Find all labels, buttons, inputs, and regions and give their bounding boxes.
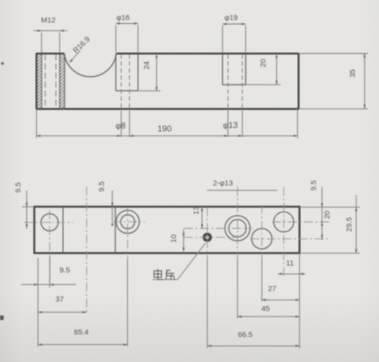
cable hole centerlines bbox=[206, 207, 208, 259]
dim 37 bbox=[38, 187, 87, 314]
hole1 centerlines bbox=[24, 221, 73, 223]
hole4 centerlines bbox=[184, 227, 252, 229]
counterbore phi16 bbox=[116, 54, 138, 91]
plate outline bbox=[34, 207, 299, 253]
leader cable text bbox=[153, 243, 206, 280]
dim phi16 bbox=[116, 13, 138, 52]
bar outline bbox=[37, 53, 299, 109]
hidden hole phi13 bbox=[227, 54, 229, 109]
paper grain bbox=[0, 0, 1, 1]
notch arc R16.9 bbox=[64, 54, 116, 77]
hatch left strip bbox=[37, 54, 42, 109]
dim 20 right bbox=[321, 211, 332, 239]
boss edge left bbox=[62, 207, 64, 253]
hole5 centerlines bbox=[251, 238, 331, 240]
dim 9.5 mid bbox=[97, 181, 113, 226]
glyph dian bbox=[154, 269, 163, 280]
hidden hole phi8 bbox=[120, 54, 122, 109]
stray tick left margin bbox=[0, 316, 4, 321]
dim 45 bbox=[238, 259, 300, 319]
glyph lan bbox=[165, 270, 174, 280]
hole phi19 plan bbox=[225, 216, 250, 241]
dim 27 bbox=[262, 259, 300, 302]
label 2-phi13 bbox=[207, 178, 278, 190]
hole M12 plan bbox=[41, 214, 58, 231]
dim 9.5 left bbox=[14, 182, 35, 229]
hole6 centerlines bbox=[272, 221, 330, 223]
dim 11 bbox=[278, 254, 306, 349]
dim 13 cable bbox=[191, 206, 203, 228]
M12 thread hole lines bbox=[41, 54, 43, 109]
dim 190 with phi8 phi13 arrows bbox=[37, 109, 298, 138]
dim 24 bbox=[139, 54, 161, 91]
boss edge right bbox=[114, 207, 116, 253]
dim 29.5 bbox=[300, 195, 360, 253]
dim 35 bbox=[299, 54, 368, 109]
counterbore phi19 bbox=[223, 54, 246, 85]
hole phi13 lower bbox=[252, 229, 272, 249]
dim 66.5 bbox=[207, 259, 299, 349]
dim 9.5 bottomleft bbox=[21, 256, 76, 347]
left boss edge line bbox=[64, 54, 66, 109]
hole2 centerlines bbox=[112, 221, 145, 223]
stray dot left margin bbox=[1, 62, 4, 65]
hole phi16 plan bbox=[116, 210, 139, 233]
dim 20 bbox=[246, 54, 280, 85]
dim 9.5 right bbox=[300, 180, 360, 240]
hatch right strip bbox=[60, 54, 65, 109]
leader R16.9 bbox=[70, 35, 92, 63]
dim M12 bbox=[34, 15, 68, 52]
dim 10 cable bbox=[169, 229, 185, 252]
hole phi13 upper bbox=[274, 212, 294, 232]
dim phi19 bbox=[223, 13, 246, 53]
dim 65.4 bbox=[38, 259, 128, 347]
cable gland bbox=[203, 233, 212, 242]
